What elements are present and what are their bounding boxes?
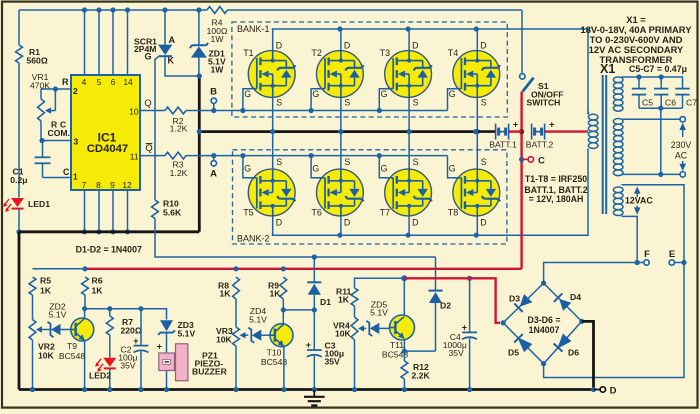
svg-text:5: 5	[97, 77, 102, 87]
svg-text:1W: 1W	[211, 34, 225, 44]
node E terminal	[669, 249, 687, 265]
wire T9 collector bus	[85, 306, 167, 319]
wire T4 source stub	[475, 97, 487, 134]
node A terminal	[210, 156, 217, 180]
wire IC1 pin3 COM line	[42, 120, 71, 141]
svg-text:5.1V: 5.1V	[249, 315, 267, 325]
wire Qbar line to gate bus A	[140, 153, 448, 158]
wire secondary mid tap 230V	[622, 117, 686, 122]
svg-text:BUZZER: BUZZER	[192, 366, 228, 376]
label D3-D6 note	[527, 315, 560, 335]
svg-text:5.1V: 5.1V	[49, 310, 67, 320]
wire T7 gate drop	[379, 156, 392, 178]
capacitor C6	[654, 77, 676, 108]
wire positive 12V rail red	[82, 266, 521, 271]
wire rail corner to R1	[18, 10, 20, 45]
svg-text:T9: T9	[67, 341, 77, 351]
potentiometer VR2	[29, 320, 55, 393]
label 230V AC	[671, 123, 692, 171]
svg-text:12: 12	[122, 180, 132, 190]
svg-text:1.2K: 1.2K	[170, 168, 188, 178]
wire T10 emitter	[281, 346, 286, 392]
zener ZD5	[366, 300, 389, 337]
wire IC ground bus	[19, 230, 199, 233]
label D1-D2 note	[76, 245, 142, 255]
svg-text:+: +	[549, 120, 555, 131]
svg-text:G: G	[449, 164, 456, 174]
wire R5 to VR2	[32, 295, 34, 320]
zener ZD1	[190, 43, 226, 75]
svg-text:1K: 1K	[220, 289, 232, 299]
svg-text:S: S	[413, 98, 419, 108]
svg-text:T4: T4	[448, 48, 459, 58]
transformer X1 secondary HV winding	[613, 77, 623, 176]
wire BANK-2 drain bus	[272, 149, 588, 238]
resistor R8	[218, 277, 239, 299]
wire top positive rail	[19, 9, 522, 11]
wire R11 to VR4	[354, 306, 356, 317]
wire T8 source stub	[477, 132, 487, 170]
wire IC1 top pin drop x127.5	[125, 7, 130, 75]
svg-text:8: 8	[96, 180, 101, 190]
svg-text:3: 3	[74, 137, 79, 147]
wire T11 emitter node	[402, 339, 436, 354]
label battery note	[524, 174, 587, 204]
wire T8 drain stub	[477, 216, 486, 235]
wire C1 to IC1 pin1	[43, 167, 72, 178]
svg-text:5.6K: 5.6K	[163, 208, 182, 218]
svg-text:10K: 10K	[335, 329, 352, 339]
wire T3 drain stub	[409, 29, 418, 51]
wire T7 drain stub	[409, 216, 418, 235]
wire battery positive riser	[519, 92, 524, 269]
svg-text:D: D	[276, 41, 282, 51]
wire ZD1 to black node	[198, 58, 200, 76]
svg-text:5.1V: 5.1V	[370, 308, 388, 318]
svg-text:7: 7	[82, 180, 87, 190]
transformer X1 primary winding	[588, 111, 598, 148]
svg-text:F: F	[644, 249, 650, 260]
svg-text:D: D	[480, 41, 486, 51]
IC IC1 CD4047	[71, 75, 140, 190]
transistor Q T10	[261, 324, 293, 367]
svg-text:LED1: LED1	[28, 199, 50, 209]
svg-text:S: S	[344, 157, 350, 167]
wire R8 to VR3	[235, 299, 237, 327]
wire T7 source stub	[409, 132, 419, 170]
transformer X1 core	[603, 75, 607, 214]
resistor R5	[29, 276, 52, 296]
wire T4 gate drop	[448, 89, 461, 111]
wire IC1 bottom pin drop x127.5	[125, 190, 130, 234]
wire IC1 top pin drop x113	[110, 7, 115, 75]
svg-text:0.2μ: 0.2μ	[10, 175, 27, 185]
svg-text:G: G	[312, 164, 319, 174]
svg-text:2: 2	[73, 86, 78, 96]
svg-text:D: D	[344, 41, 350, 51]
resistor R4	[207, 7, 228, 44]
svg-text:35V: 35V	[449, 348, 465, 358]
wire R1 to LED1	[18, 63, 20, 198]
capacitor C2	[118, 309, 148, 392]
wire VR1 to COM junction	[39, 121, 44, 143]
resistor R6	[82, 276, 104, 296]
potentiometer VR3	[216, 326, 248, 392]
diode D4	[554, 292, 581, 311]
BANK-2 dashed box	[233, 150, 507, 244]
wire IC1 top pin drop x84.5	[82, 7, 87, 75]
svg-text:R5: R5	[40, 276, 51, 286]
transistor T8 MOSFET	[448, 169, 500, 217]
wire T4 drain stub	[477, 29, 486, 51]
svg-text:G: G	[381, 89, 388, 99]
node B terminal	[210, 87, 217, 111]
svg-text:C7: C7	[686, 98, 697, 108]
svg-text:S: S	[413, 157, 419, 167]
wire T1 source stub	[270, 97, 282, 134]
svg-text:2.2K: 2.2K	[412, 371, 431, 381]
wire T1 drain stub	[273, 29, 282, 51]
transistor T5 MOSFET	[243, 169, 295, 217]
svg-text:1W: 1W	[211, 65, 225, 75]
zener ZD4	[248, 306, 270, 343]
svg-text:C: C	[538, 156, 545, 167]
svg-text:G: G	[244, 89, 251, 99]
wire SCR1 anode drop	[162, 7, 175, 45]
transformer X1 12V winding	[613, 187, 623, 216]
wire low-volt rail blue part	[33, 268, 86, 270]
svg-text:1N4007: 1N4007	[529, 325, 560, 335]
svg-text:G: G	[244, 164, 251, 174]
diode D2	[429, 257, 452, 351]
wire R6 to T9 collector	[82, 295, 87, 311]
svg-text:AC: AC	[675, 151, 688, 161]
battery BATT.1	[473, 120, 522, 150]
svg-text:G: G	[145, 52, 152, 62]
wire T11 collector	[403, 278, 405, 315]
wire IC1 top pin drop x99	[96, 7, 101, 75]
svg-text:T11: T11	[390, 340, 404, 350]
wire T3 gate drop	[379, 89, 392, 111]
capacitor C3	[306, 310, 344, 392]
svg-text:4: 4	[82, 77, 87, 87]
label Q output	[144, 97, 151, 108]
svg-text:D3-D6 =: D3-D6 =	[527, 315, 560, 325]
wire T6 source stub	[341, 132, 351, 170]
capacitor C4	[443, 276, 477, 392]
svg-text:D: D	[412, 41, 418, 51]
svg-text:D: D	[480, 218, 486, 228]
resistor R9	[268, 277, 287, 299]
wire R10 sense line	[155, 219, 436, 260]
svg-text:+: +	[513, 120, 519, 131]
transistor Q T9	[59, 309, 94, 392]
label 12VAC	[625, 186, 653, 214]
svg-text:D1-D2 = 1N4007: D1-D2 = 1N4007	[76, 245, 142, 255]
svg-text:T6: T6	[311, 208, 322, 218]
transistor T6 MOSFET	[311, 169, 363, 217]
buzzer PZ1 piezo	[159, 344, 228, 392]
svg-text:C: C	[63, 167, 70, 177]
svg-text:D: D	[610, 386, 617, 397]
svg-text:560Ω: 560Ω	[27, 56, 48, 66]
svg-text:S: S	[344, 98, 350, 108]
wire Q line to gate bus B	[140, 108, 448, 113]
node D terminal	[594, 386, 617, 397]
wire T6 gate drop	[311, 156, 324, 178]
svg-text:S: S	[481, 157, 487, 167]
svg-text:C5-C7 = 0.47μ: C5-C7 = 0.47μ	[629, 64, 687, 74]
svg-text:D6: D6	[568, 348, 579, 358]
svg-text:B: B	[210, 87, 217, 98]
wire IC1 bottom pin drop x84.5	[82, 190, 87, 234]
svg-text:+: +	[157, 342, 162, 352]
svg-text:11: 11	[130, 152, 139, 162]
svg-text:T7: T7	[380, 208, 391, 218]
svg-text:14: 14	[123, 77, 133, 87]
svg-text:G: G	[381, 164, 388, 174]
wire ZD1 top	[196, 7, 201, 45]
wire bridge top to F	[544, 260, 644, 283]
wire BANK-1 drain bus	[272, 26, 588, 114]
wire LED1 to ground rail	[16, 209, 21, 234]
potentiometer VR1	[30, 72, 55, 121]
svg-text:1K: 1K	[338, 295, 350, 305]
svg-text:E: E	[669, 249, 675, 260]
svg-text:T2: T2	[311, 48, 322, 58]
svg-text:S: S	[276, 157, 282, 167]
label C5-C7 note	[629, 64, 687, 74]
svg-text:= 12V, 180AH: = 12V, 180AH	[529, 194, 584, 204]
wire T8 gate drop	[448, 156, 461, 178]
ground symbol	[304, 390, 325, 406]
svg-text:S: S	[276, 98, 282, 108]
svg-text:G: G	[312, 89, 319, 99]
svg-text:T1-T8 = IRF250: T1-T8 = IRF250	[525, 174, 587, 184]
wire T2 source stub	[338, 97, 350, 134]
diode D1	[307, 257, 331, 310]
LED LED2	[89, 335, 116, 392]
svg-text:470K: 470K	[30, 81, 50, 91]
svg-text:BANK-2: BANK-2	[237, 234, 270, 244]
wire left ground drop	[18, 232, 21, 390]
BANK-1 dashed box	[232, 22, 507, 117]
svg-text:T5: T5	[243, 208, 254, 218]
wire T3 source stub	[407, 97, 419, 134]
diode D3	[509, 294, 532, 313]
node C terminal	[522, 156, 545, 167]
wire S1 feed drop	[521, 10, 523, 74]
resistor R12	[401, 351, 430, 392]
resistor R7	[106, 309, 141, 336]
capacitor C7	[675, 89, 697, 109]
wire SCR1 gate line	[155, 57, 158, 200]
svg-text:230V: 230V	[671, 140, 692, 150]
svg-text:SWITCH: SWITCH	[527, 98, 561, 108]
svg-text:D: D	[344, 218, 350, 228]
resistor R1	[16, 45, 48, 66]
diode D5	[508, 334, 532, 357]
svg-text:D: D	[412, 218, 418, 228]
wire IC1 pin2 R line	[41, 77, 71, 92]
wire T11 collector bus	[355, 275, 408, 288]
wire T2 gate drop	[311, 89, 324, 111]
svg-text:Q: Q	[144, 97, 151, 108]
svg-text:10: 10	[129, 107, 139, 117]
wire bottom ground rail	[19, 388, 594, 391]
zener ZD2	[48, 302, 72, 338]
resistor R11	[336, 287, 358, 307]
svg-text:G: G	[449, 89, 456, 99]
svg-text:X1: X1	[600, 62, 615, 76]
svg-text:T1: T1	[243, 48, 254, 58]
thyristor SCR1	[134, 37, 175, 66]
wire IC1 bottom pin drop x113	[110, 190, 115, 234]
wire ZD3 to buzzer	[157, 333, 167, 353]
svg-text:D3: D3	[509, 294, 520, 304]
wire T5 drain stub	[273, 216, 282, 235]
svg-text:D4: D4	[570, 292, 581, 302]
svg-text:220Ω: 220Ω	[121, 326, 142, 336]
wire T1 gate drop	[243, 89, 256, 111]
svg-text:D5: D5	[508, 348, 519, 358]
svg-text:R: R	[62, 77, 69, 87]
svg-text:T10: T10	[267, 348, 282, 358]
switch S1	[520, 74, 564, 108]
battery BATT.2	[526, 120, 588, 150]
svg-text:1.2K: 1.2K	[170, 124, 188, 134]
svg-text:+: +	[462, 323, 467, 333]
wire secondary top tap	[622, 74, 683, 88]
svg-text:1K: 1K	[40, 286, 52, 296]
capacitor C1	[10, 141, 50, 186]
wire T5 gate drop	[243, 156, 256, 178]
svg-text:D1: D1	[320, 297, 331, 307]
wire T2 drain stub	[341, 29, 350, 51]
svg-text:+: +	[306, 340, 311, 350]
svg-text:C6: C6	[665, 98, 676, 108]
wire 12V bottom tap	[622, 216, 640, 265]
svg-text:S: S	[481, 98, 487, 108]
LED LED1	[3, 198, 50, 212]
wire bridge negative to ground	[582, 321, 596, 392]
transistor T2 MOSFET	[311, 48, 363, 97]
svg-text:+: +	[133, 336, 138, 346]
svg-text:C5: C5	[642, 98, 653, 108]
svg-text:1K: 1K	[270, 289, 282, 299]
svg-text:1K: 1K	[92, 286, 104, 296]
svg-text:T8: T8	[448, 208, 459, 218]
svg-text:10K: 10K	[216, 335, 233, 345]
wire T5 source stub	[273, 132, 283, 170]
wire charger red branch	[404, 278, 500, 323]
svg-text:R6: R6	[92, 276, 103, 286]
transistor T7 MOSFET	[380, 169, 432, 217]
svg-text:A: A	[210, 169, 217, 180]
svg-text:9: 9	[110, 180, 115, 190]
zener ZD3	[158, 320, 195, 339]
wire source bus black	[197, 129, 476, 134]
svg-text:T3: T3	[380, 48, 391, 58]
svg-text:D2: D2	[440, 301, 451, 311]
svg-text:CD4047: CD4047	[87, 143, 128, 155]
wire 12V top tap	[622, 185, 685, 263]
svg-text:12VAC: 12VAC	[625, 196, 653, 206]
label X1	[600, 62, 615, 76]
svg-text:1: 1	[73, 172, 78, 182]
svg-text:BATT.2: BATT.2	[526, 140, 554, 150]
svg-text:K: K	[168, 56, 175, 66]
svg-text:BATT.1: BATT.1	[489, 140, 517, 150]
potentiometer VR4	[333, 317, 366, 392]
wire secondary low tap 230V	[622, 172, 686, 177]
wire capacitor bottom bus	[639, 106, 683, 111]
wire IC1 bottom pin drop x99	[96, 190, 101, 234]
wire SCR1 cathode to node	[165, 57, 198, 76]
node F terminal	[644, 249, 650, 265]
svg-text:10K: 10K	[38, 351, 55, 361]
svg-text:BC548: BC548	[59, 351, 85, 361]
wire cap bus to lower tap	[658, 108, 663, 177]
svg-text:COM.: COM.	[48, 128, 70, 138]
capacitor C5	[632, 77, 653, 108]
svg-text:6: 6	[111, 77, 116, 87]
wire R9 to T10 collector node	[281, 299, 317, 324]
wire E to bridge bottom	[544, 263, 684, 378]
resistor R2	[165, 107, 188, 133]
label Qbar output	[145, 142, 152, 153]
wire ground bus vertical (SCR node down)	[197, 73, 202, 231]
svg-text:LED2: LED2	[89, 371, 111, 381]
resistor R10	[152, 199, 182, 219]
transistor T1 MOSFET	[243, 48, 295, 97]
transistor Q T11	[382, 315, 415, 360]
transistor T3 MOSFET	[380, 48, 432, 97]
svg-text:A: A	[169, 35, 176, 45]
svg-text:5.1V: 5.1V	[178, 329, 196, 339]
svg-text:D: D	[276, 218, 282, 228]
resistor R3	[165, 152, 188, 178]
diode bridge frame	[501, 281, 585, 367]
diode D6	[554, 334, 580, 358]
svg-text:35V: 35V	[325, 357, 341, 367]
svg-text:BANK-1: BANK-1	[237, 24, 270, 34]
wire T6 drain stub	[341, 216, 350, 235]
svg-text:35V: 35V	[120, 361, 136, 371]
label X1 note	[581, 14, 693, 65]
transistor T4 MOSFET	[448, 48, 500, 97]
